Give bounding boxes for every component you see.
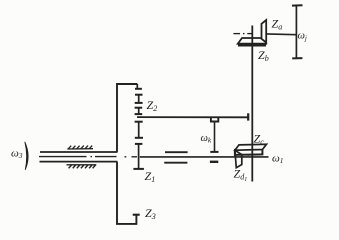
hollow shaft omega3 upper line [40,151,118,153]
omega-j bottom cap [292,57,302,59]
carrier top stub [136,84,138,88]
centerline dot in bevel Zc [247,154,249,156]
hollow shaft omega3 lower line [40,161,118,163]
omega-j top cap [292,4,303,6]
vertical shaft [251,26,253,182]
shaft line to omega-j [266,33,297,36]
carrier arm frame lower part [117,162,136,224]
omega-k hanger bracket [211,117,218,121]
centerline dash-dot left [39,156,137,158]
arm horizontal line [137,116,248,118]
bevel gear Zb [238,38,266,44]
sleeve coupling upper line [165,151,188,153]
arm end tick [247,113,249,120]
top centerline dash-dot [233,33,252,35]
gear Z2 [135,94,143,96]
omega-k rod cap [210,151,218,153]
bevel gear Za [262,20,267,43]
lower ground hatching [67,165,97,169]
rotation arc omega3 [25,142,28,170]
omega-j dimension line [295,6,297,59]
main shaft solid line [140,156,269,158]
carrier stub cap [135,88,142,90]
upper ground hatching [67,146,93,149]
carrier arm frame upper part [117,84,137,152]
svg-text:ωk: ωk [201,133,212,145]
bevel gear Zc top face [235,144,267,150]
small gear on arm shaft [135,107,143,109]
omega-k lower plate [210,161,218,163]
omega-k hanger rod [214,122,216,152]
bevel gear Zb bottom face [238,45,266,47]
bevel gear Zc front face [235,150,263,155]
bevel gear Zd [235,150,242,167]
gear Z3 cap [133,214,140,216]
gear Z1 [135,143,143,145]
sleeve coupling lower line [164,162,187,164]
lower planet gear [135,121,143,123]
